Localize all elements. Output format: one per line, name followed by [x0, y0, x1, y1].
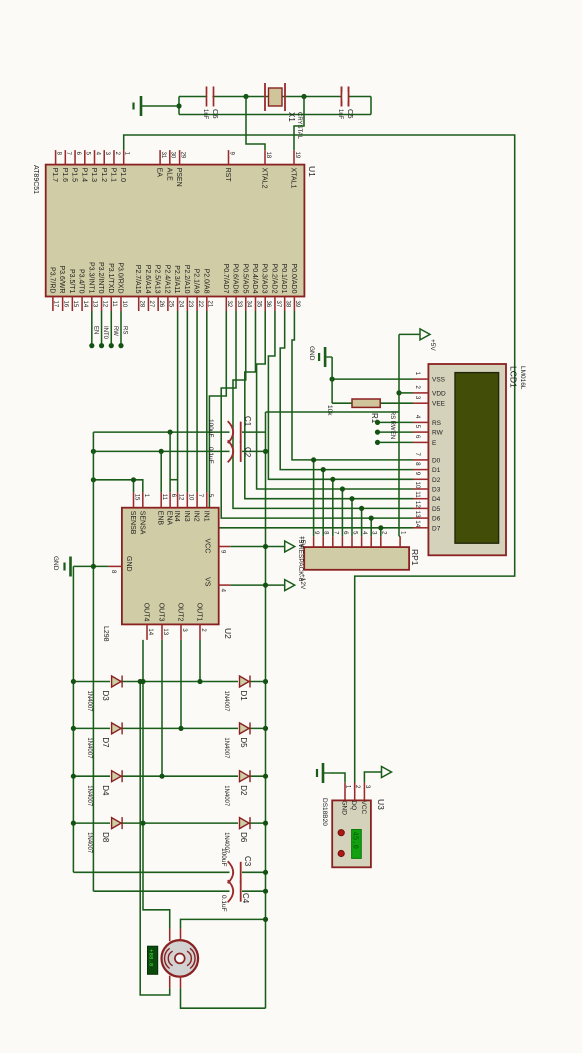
- svg-text:DQ: DQ: [350, 801, 357, 811]
- svg-text:P2.2/A10: P2.2/A10: [183, 265, 190, 294]
- U1 pin 36 P0.3/AD3: [264, 297, 266, 312]
- svg-text:5: 5: [414, 425, 421, 429]
- wire top connector: [370, 97, 372, 115]
- U2 pin 2 OUT1: [199, 624, 201, 640]
- U2 pin 12 IN4: [177, 492, 179, 508]
- LCD1 pin 12 D5: [413, 507, 428, 509]
- svg-text:10: 10: [121, 301, 127, 308]
- svg-text:19: 19: [294, 152, 300, 159]
- svg-text:OUT3: OUT3: [158, 603, 165, 622]
- svg-text:D8: D8: [101, 832, 110, 843]
- diode D3 1N4007 (lower): [112, 676, 123, 688]
- wire C4 top: [242, 890, 266, 892]
- node RW wire end: [375, 430, 380, 435]
- svg-text:10k: 10k: [326, 405, 333, 416]
- svg-text:34: 34: [246, 301, 252, 308]
- svg-text:D6: D6: [239, 832, 248, 843]
- RP1 pin 4: [361, 536, 363, 547]
- wire OUT1 to column1: [199, 640, 201, 682]
- LCD1 pin 10 D3: [413, 488, 428, 490]
- svg-text:RP1: RP1: [410, 549, 420, 566]
- svg-text:SENSA: SENSA: [138, 511, 145, 535]
- svg-text:GND: GND: [52, 556, 59, 571]
- svg-text:32: 32: [226, 301, 232, 308]
- node RS wire end: [375, 420, 380, 425]
- wire ground collector line: [92, 432, 94, 891]
- wire R1 to ground rail: [332, 402, 352, 404]
- svg-text:P1.5: P1.5: [71, 168, 78, 183]
- wire P0.3 to LCD D3 bus: [257, 311, 413, 489]
- svg-text:ENA: ENA: [166, 511, 173, 526]
- svg-text:D3: D3: [101, 691, 110, 702]
- U1 pin 22 P2.1/A9: [196, 297, 198, 312]
- U2 pin 7 IN2: [196, 492, 198, 508]
- svg-text:P0.2/AD2: P0.2/AD2: [270, 264, 277, 294]
- crystal X1: [284, 83, 286, 111]
- svg-text:25: 25: [168, 301, 174, 308]
- svg-text:15: 15: [72, 301, 78, 308]
- U2 pin 15 SENSB: [133, 492, 135, 508]
- svg-text:C5: C5: [346, 109, 355, 119]
- svg-text:P3.3/INT1: P3.3/INT1: [87, 262, 94, 294]
- wire U3 GND: [330, 773, 345, 783]
- wire XTAL2 to U1 pin18: [246, 97, 265, 151]
- junction D0 with RP1: [311, 457, 316, 462]
- junction D5 with RP1: [359, 506, 364, 511]
- svg-text:LCD1: LCD1: [509, 366, 519, 388]
- junction column 2 on supply rail: [263, 726, 268, 731]
- ground LCD rail symbol: [319, 347, 332, 367]
- svg-text:U3: U3: [376, 799, 386, 810]
- RP1 pin 1: [399, 536, 401, 547]
- wire supply loop to motor right upper: [181, 988, 266, 1008]
- svg-text:P0.0/AD0: P0.0/AD0: [290, 264, 297, 294]
- svg-text:RW: RW: [112, 326, 118, 336]
- RP1 pin 9: [313, 536, 315, 547]
- node EN wire end: [375, 440, 380, 445]
- junction D1 with RP1: [321, 467, 326, 472]
- svg-text:P0.5/AD5: P0.5/AD5: [241, 264, 248, 294]
- motor rpm display badge: [148, 946, 158, 974]
- wire +5V stem: [399, 333, 420, 335]
- U1 pin 28 P2.7/A15: [138, 297, 140, 312]
- svg-text:DS18B20: DS18B20: [321, 798, 328, 826]
- U2 pin 5 IN1: [206, 492, 208, 508]
- junction OUT4 column4: [140, 821, 145, 826]
- diode D5 1N4007 (upper): [240, 722, 251, 734]
- svg-text:GND: GND: [125, 556, 132, 572]
- svg-text:P3.6/WR: P3.6/WR: [58, 265, 65, 293]
- wire SENSA to ground riser: [93, 480, 142, 492]
- svg-text:OUT4: OUT4: [143, 603, 150, 622]
- U1 pin 25 P2.4/A12: [167, 297, 169, 312]
- U1 pin 34 P0.5/AD5: [245, 297, 247, 312]
- svg-text:28: 28: [138, 301, 144, 308]
- wire P0.2 to LCD D2 bus: [268, 311, 413, 479]
- U1 pin 7 P1.6: [64, 150, 66, 165]
- svg-text:IN3: IN3: [183, 511, 190, 522]
- wire P0.6 to LCD D6 bus: [221, 311, 413, 518]
- svg-text:P1.1: P1.1: [109, 168, 116, 183]
- wire RP1 pin8 to D1 node: [322, 470, 324, 537]
- wire OUT4 to motor left lower: [143, 640, 170, 929]
- LCD LCD1 LM016L body: [428, 364, 506, 555]
- svg-text:XTAL2: XTAL2: [261, 168, 268, 189]
- svg-text:X1: X1: [287, 112, 296, 122]
- svg-text:P0.4/AD4: P0.4/AD4: [251, 264, 258, 294]
- svg-text:P3.4/T0: P3.4/T0: [78, 269, 85, 294]
- svg-text:39: 39: [294, 301, 300, 308]
- U2 pin 8 GND: [108, 565, 122, 567]
- node EN at P3.3: [89, 343, 94, 348]
- svg-text:1nF: 1nF: [202, 109, 208, 120]
- U1 pin 31 EA: [159, 150, 161, 165]
- power +5V arrow U3: [382, 767, 392, 778]
- svg-text:P3.0/RXD: P3.0/RXD: [117, 262, 124, 293]
- wire diode column 3: [73, 775, 265, 777]
- diode D1 1N4007 (upper): [240, 676, 251, 688]
- LCD1 pin 3 VEE: [413, 402, 428, 404]
- svg-text:EN: EN: [389, 431, 395, 439]
- svg-text:1N4007: 1N4007: [86, 737, 92, 759]
- svg-text:22: 22: [197, 301, 203, 308]
- svg-text:12: 12: [414, 501, 421, 509]
- LCD1 pin 9 D2: [413, 478, 428, 480]
- diode D4 1N4007 (lower): [112, 770, 123, 782]
- svg-text:PSEN: PSEN: [175, 168, 182, 187]
- svg-text:+5V: +5V: [299, 536, 306, 548]
- LCD1 pin 2 VDD: [413, 392, 428, 394]
- capacitor C2 0.1uF: [228, 440, 241, 462]
- wire LCD VDD drop: [399, 392, 413, 394]
- wire P0.7 to LCD D7 bus: [209, 311, 413, 528]
- svg-text:P2.3/A11: P2.3/A11: [173, 265, 180, 293]
- junction OUT4 column1: [140, 679, 145, 684]
- svg-text:100uF: 100uF: [207, 419, 214, 437]
- wire C3 bottom: [73, 871, 229, 873]
- U1 pin 11 P3.1/TXD: [110, 297, 112, 312]
- svg-text:1nF: 1nF: [337, 109, 343, 120]
- svg-text:P2.4/A12: P2.4/A12: [163, 265, 170, 294]
- svg-text:P1.6: P1.6: [61, 168, 68, 183]
- junction column 4 on ground rail: [71, 821, 76, 826]
- motor pin right y=412.3: [169, 976, 171, 989]
- svg-text:IN1: IN1: [202, 511, 209, 522]
- wire P3.3 stub EN: [91, 311, 93, 346]
- node INT0 at P3.2: [99, 343, 104, 348]
- LCD1 pin 6 E: [413, 441, 428, 443]
- wire ENA-IN4 riser: [170, 479, 178, 481]
- wire C3 top: [242, 871, 266, 873]
- LCD display window: [455, 373, 499, 544]
- wire P3.2 stub INT0: [101, 311, 103, 346]
- svg-text:P3.5/T1: P3.5/T1: [68, 269, 75, 294]
- U2 pin 1 SENSA: [142, 492, 144, 508]
- svg-text:GND: GND: [341, 801, 348, 816]
- capacitor C5 1nF: [342, 87, 349, 107]
- junction OUT3 column3: [159, 774, 164, 779]
- svg-text:E: E: [432, 440, 437, 447]
- U1 pin 23 P2.2/A10: [186, 297, 188, 312]
- wire xtal column A: [179, 96, 371, 98]
- svg-text:1N4007: 1N4007: [86, 785, 92, 807]
- U1 pin 14 P3.4/T0: [81, 297, 83, 312]
- U1 pin 3 P1.2: [103, 150, 105, 165]
- svg-text:VS: VS: [204, 577, 211, 587]
- svg-text:14: 14: [414, 520, 421, 528]
- wire RP1 pin7 to D2 node: [332, 479, 334, 536]
- wire P0.4 to LCD D4 bus: [245, 311, 413, 499]
- wire P3.0 stub RS: [120, 311, 122, 346]
- sensor U3 DS18B20 body: [332, 800, 371, 867]
- wire OUT2 to column2: [180, 640, 182, 729]
- junction XTAL1 on column A: [301, 94, 306, 99]
- svg-text:15: 15: [134, 494, 140, 501]
- wire LCD RW drop: [378, 431, 414, 433]
- svg-text:D4: D4: [101, 785, 110, 796]
- svg-text:D6: D6: [432, 516, 441, 523]
- U3 led dot 2: [338, 850, 344, 856]
- svg-text:P1.4: P1.4: [80, 168, 87, 183]
- svg-text:12: 12: [101, 301, 107, 308]
- U3 pin 1 GND: [344, 783, 346, 801]
- svg-text:27: 27: [148, 301, 154, 308]
- U2 pin 3 OUT2: [180, 624, 182, 640]
- U1 pin 24 P2.3/A11: [177, 297, 179, 312]
- U1 pin 33 P0.6/AD6: [235, 297, 237, 312]
- svg-text:C1: C1: [243, 416, 252, 427]
- svg-text:C3: C3: [243, 856, 252, 867]
- svg-text:10: 10: [187, 494, 193, 501]
- svg-text:P2.1/A9: P2.1/A9: [193, 269, 200, 294]
- svg-text:D4: D4: [432, 496, 441, 503]
- U1 pin 19 XTAL1: [293, 150, 295, 165]
- svg-text:24: 24: [177, 301, 183, 308]
- svg-text:VDD: VDD: [432, 390, 446, 397]
- LCD1 pin 14 D7: [413, 527, 428, 529]
- svg-text:P3.2/INT0: P3.2/INT0: [97, 262, 104, 294]
- wire C1 top: [242, 431, 266, 433]
- wire XTAL1 to U1 pin19: [294, 97, 304, 151]
- svg-text:0.1uF: 0.1uF: [220, 895, 227, 912]
- wire P0.0 to LCD D0 bus: [292, 311, 413, 460]
- svg-text:31: 31: [160, 152, 166, 159]
- junction C3 on supply rail: [263, 870, 268, 875]
- wire RP1 pin5 to D4 node: [351, 499, 353, 537]
- svg-text:RW: RW: [389, 421, 395, 431]
- svg-text:29: 29: [179, 152, 185, 159]
- wire U3 VCC: [364, 772, 377, 783]
- svg-text:ALE: ALE: [165, 168, 172, 182]
- U2 pin 10 IN3: [186, 492, 188, 508]
- U1 pin 30 ALE: [169, 150, 171, 165]
- junction ENA on C1 column: [168, 430, 173, 435]
- motor pin left y=401.5: [180, 929, 182, 942]
- motor pin right y=401.5: [180, 976, 182, 989]
- svg-text:3: 3: [414, 396, 421, 400]
- svg-text:RST: RST: [224, 168, 231, 183]
- svg-text:VEE: VEE: [432, 401, 446, 408]
- junction column 3 on supply rail: [263, 774, 268, 779]
- svg-text:SENSB: SENSB: [129, 511, 136, 535]
- U1 pin 27 P2.6/A14: [147, 297, 149, 312]
- power +5V arrow U2 VCC: [285, 541, 295, 552]
- svg-text:RW: RW: [432, 430, 444, 437]
- diode D7 1N4007 (lower): [112, 722, 123, 734]
- wire supply to motor left upper: [181, 919, 266, 928]
- LCD1 pin 1 VSS: [413, 378, 428, 380]
- wire P2.3 to U2 IN4: [177, 311, 179, 492]
- RP1 pin 3: [370, 536, 372, 547]
- U1 pin 13 P3.3/INT1: [91, 297, 93, 312]
- junction VSS on ground rail: [330, 377, 335, 382]
- svg-text:11: 11: [414, 491, 421, 498]
- U1 pin 9 RST: [228, 150, 230, 165]
- wire C4 bottom: [93, 890, 229, 892]
- svg-text:23: 23: [187, 301, 193, 308]
- junction OUT2 column2: [178, 726, 183, 731]
- RP1 pin 5: [351, 536, 353, 547]
- svg-text:P0.1/AD1: P0.1/AD1: [280, 264, 287, 294]
- wire diode column 4: [73, 822, 265, 824]
- U1 pin 29 PSEN: [179, 150, 181, 165]
- capacitor C3 100uF: [228, 861, 241, 883]
- U1 pin 38 P0.1/AD1: [284, 297, 286, 312]
- wire C1 bottom: [93, 431, 229, 433]
- LCD1 pin 13 D6: [413, 517, 428, 519]
- svg-text:VCC: VCC: [204, 539, 211, 554]
- wire U2 VS column: [230, 584, 285, 586]
- svg-text:OUT2: OUT2: [177, 603, 184, 622]
- wire +5V rail to RP1 pin1: [398, 334, 400, 536]
- svg-text:13: 13: [414, 511, 421, 519]
- wire supply line y316: [265, 412, 267, 1008]
- svg-text:9: 9: [414, 472, 421, 476]
- junction D7 with RP1: [378, 525, 383, 530]
- U2 pin 13 OUT3: [161, 624, 163, 640]
- LCD1 pin 11 D4: [413, 498, 428, 500]
- svg-text:35: 35: [255, 301, 261, 308]
- RP1 pin 6: [341, 536, 343, 547]
- wire xtal column B: [179, 114, 371, 116]
- junction C2 on ground line: [91, 449, 96, 454]
- U1 pin 16 P3.6/WR: [62, 297, 64, 312]
- svg-text:8: 8: [414, 462, 421, 466]
- svg-text:1N4007: 1N4007: [223, 785, 229, 807]
- junction D2 with RP1: [330, 477, 335, 482]
- wire arrow stem U3: [378, 771, 382, 773]
- U1 pin 10 P3.0/RXD: [120, 297, 122, 312]
- resistor R1 body: [352, 399, 380, 407]
- svg-text:D2: D2: [432, 477, 441, 484]
- svg-text:D1: D1: [432, 467, 441, 474]
- junction crystal ground: [176, 103, 181, 108]
- junction SENSB on riser: [131, 477, 136, 482]
- svg-text:17: 17: [53, 301, 59, 308]
- wire OUT3 to column3: [161, 640, 163, 776]
- diode D8 1N4007 (lower): [112, 817, 123, 829]
- svg-text:GND: GND: [308, 346, 315, 361]
- junction column 2 on ground rail: [71, 726, 76, 731]
- svg-text:U1: U1: [307, 166, 317, 177]
- LCD1 pin 8 D1: [413, 469, 428, 471]
- U1 pin 18 XTAL2: [264, 150, 266, 165]
- U3 display window: [352, 830, 362, 859]
- svg-text:OUT1: OUT1: [196, 603, 203, 622]
- LCD1 pin 7 D0: [413, 459, 428, 461]
- wire RP1 pin6 to D3 node: [341, 489, 343, 536]
- svg-text:D3: D3: [432, 487, 441, 494]
- wire SENSB row: [133, 480, 135, 492]
- svg-text:14: 14: [147, 628, 153, 635]
- svg-text:7: 7: [414, 452, 421, 456]
- svg-text:C4: C4: [241, 893, 250, 904]
- svg-text:IN4: IN4: [173, 511, 180, 522]
- capacitor C4 0.1uF: [228, 880, 241, 902]
- junction ground collector on U2 GND column: [91, 564, 96, 569]
- svg-text:2: 2: [414, 385, 421, 389]
- svg-text:21: 21: [207, 301, 213, 308]
- wire U2 VCC column: [230, 546, 285, 548]
- U1 pin 6 P1.5: [74, 150, 76, 165]
- svg-text:4: 4: [414, 415, 421, 419]
- capacitor C6 1nF: [207, 87, 214, 107]
- junction VCC on supply line: [263, 544, 268, 549]
- U1 pin 1 P1.0: [123, 150, 125, 165]
- svg-text:P0.7/AD7: P0.7/AD7: [222, 264, 229, 294]
- wire diode column 1: [73, 681, 265, 683]
- wire C2 bottom: [93, 450, 229, 452]
- wire ENB row: [160, 451, 162, 492]
- wire riser x412: [266, 411, 400, 413]
- svg-text:14: 14: [82, 301, 88, 308]
- U3 pin 2 DQ: [354, 783, 356, 801]
- junction VDD on +5V rail: [396, 390, 401, 395]
- svg-text:P1.0: P1.0: [119, 168, 126, 183]
- junction OUT1 column1: [197, 679, 202, 684]
- junction column 1 on supply rail: [263, 679, 268, 684]
- U2 pin 14 OUT4: [146, 624, 148, 640]
- svg-text:6: 6: [414, 435, 421, 439]
- svg-text:P2.7/A15: P2.7/A15: [134, 265, 141, 294]
- capacitor C1 100uF: [228, 421, 241, 443]
- svg-text:P1.2: P1.2: [100, 168, 107, 183]
- svg-text:1N4007: 1N4007: [223, 691, 229, 713]
- U1 pin 26 P2.5/A13: [157, 297, 159, 312]
- wire RP1 pin9 to D0 node: [313, 460, 315, 536]
- wire LCD RS drop: [378, 421, 414, 423]
- ground U2 symbol: [65, 557, 71, 577]
- motor body: [161, 940, 198, 977]
- wire LCD VSS drop: [332, 378, 413, 380]
- junction ENB on C2 column: [159, 449, 164, 454]
- svg-text:D2: D2: [239, 785, 248, 796]
- U1 pin 17 P3.7/RD: [52, 297, 54, 312]
- svg-text:VCC: VCC: [360, 801, 367, 815]
- svg-text:+88.8: +88.8: [148, 949, 155, 967]
- wire RP1 pin3 to D6 node: [370, 518, 372, 536]
- LCD1 pin 5 RW: [413, 431, 428, 433]
- U2 pin 4 VS: [219, 584, 231, 586]
- wire diode column 2: [73, 727, 265, 729]
- wire P1.0 to DS18B20 DQ: [124, 135, 515, 790]
- U1 pin 12 P3.2/INT0: [101, 297, 103, 312]
- svg-text:RS: RS: [122, 326, 128, 334]
- U3 led dot 1: [338, 830, 344, 836]
- svg-text:XTAL1: XTAL1: [290, 168, 297, 189]
- RP1 pin 8: [322, 536, 324, 547]
- svg-text:C6: C6: [211, 109, 220, 119]
